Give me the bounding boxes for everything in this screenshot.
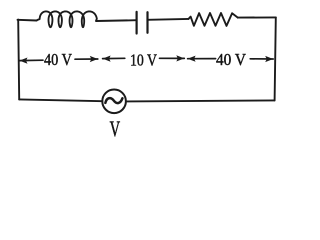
- arrow: left head for 10V (VC): [103, 57, 125, 59]
- AC source V circle: [102, 90, 126, 114]
- wire: left wall: [18, 20, 19, 100]
- AC source sine tilde: [105, 98, 122, 103]
- wire: bottom left segment: [19, 99, 102, 101]
- resistor R1 zigzag: [189, 13, 238, 26]
- svg-text:V: V: [110, 116, 121, 141]
- svg-text:40 V: 40 V: [44, 50, 73, 69]
- capacitor C1 right plate: [146, 12, 148, 33]
- wire: bottom right segment: [126, 100, 274, 101]
- arrow: right head for 10V (VC): [160, 57, 185, 59]
- wire: capacitor to resistor: [148, 18, 189, 21]
- wire: inductor to capacitor: [96, 19, 136, 22]
- arrow: right head for 40V (VR): [250, 58, 273, 60]
- capacitor C1 left plate: [136, 12, 138, 34]
- wire: top left segment to inductor: [18, 19, 37, 22]
- arrow: right head for 40V (VL): [75, 58, 98, 60]
- svg-text:10 V: 10 V: [130, 50, 158, 69]
- arrow: left head for 40V (VL): [20, 59, 44, 61]
- wire: resistor to top-right corner: [238, 16, 276, 18]
- wire: right wall: [275, 17, 276, 100]
- arrow: left head for 40V (VR): [188, 58, 216, 60]
- inductor L1: [36, 11, 96, 27]
- svg-text:40 V: 40 V: [216, 50, 247, 69]
